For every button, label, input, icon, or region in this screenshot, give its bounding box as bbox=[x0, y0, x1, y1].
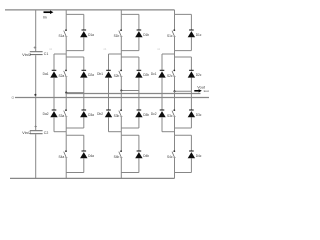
wire leg3 clamp column upper bbox=[161, 54, 163, 70]
svg-text:D4b: D4b bbox=[143, 154, 149, 158]
svg-text:D1b: D1b bbox=[143, 33, 149, 37]
transistor S3c (ideal switch) bbox=[172, 109, 176, 116]
diode D1b bbox=[135, 30, 142, 37]
diode D4a bbox=[80, 151, 87, 158]
svg-text:D2a: D2a bbox=[88, 73, 94, 77]
wire leg2 clamp column upper bbox=[108, 54, 110, 70]
label + polarity C1 bbox=[34, 46, 37, 49]
wire leg3 cell1 diode column bbox=[190, 14, 192, 50]
wire leg3 clamp column middle bbox=[161, 78, 163, 110]
wire leg2 clamp column middle bbox=[108, 78, 110, 110]
wire leg2 link cell1-cell2 bbox=[120, 51, 122, 57]
arrow Iout output current bbox=[194, 89, 202, 92]
wire leg3 rail stub switch side bbox=[174, 91, 176, 97]
svg-text:D1c: D1c bbox=[196, 33, 202, 37]
wire leg1 cell3 diode column bbox=[83, 98, 85, 129]
wire leg3 cell2 top bar bbox=[175, 56, 192, 58]
wire leg1 cell1 diode column bbox=[83, 14, 85, 50]
diode Da2 clamp lower bbox=[50, 110, 57, 117]
diode D2b bbox=[135, 70, 142, 77]
wire leg1 cell1 top bar bbox=[66, 13, 84, 15]
svg-text:S4c: S4c bbox=[167, 155, 173, 159]
node capacitor midpoint junction bbox=[34, 94, 36, 96]
svg-text:Da2: Da2 bbox=[43, 112, 49, 116]
wire leg3 cell3 bottom bar bbox=[175, 127, 192, 129]
wire leg1 top stub bbox=[65, 10, 67, 15]
svg-text:Db2: Db2 bbox=[97, 112, 103, 116]
wire leg1 rail stub diode side bbox=[83, 93, 85, 98]
transistor S1c (ideal switch) bbox=[172, 29, 176, 36]
arrow Iin input current bbox=[44, 10, 54, 14]
wire leg3 cell1 switch column bbox=[174, 14, 176, 50]
transistor S3b (ideal switch) bbox=[119, 109, 123, 116]
svg-text:S3c: S3c bbox=[167, 114, 173, 118]
wire leg1 cell2 diode column bbox=[83, 57, 85, 93]
diode Dc1 clamp upper bbox=[158, 70, 165, 77]
wire leg3 bottom stub bbox=[174, 173, 176, 179]
wire leg2 cell4 bottom bar bbox=[121, 172, 139, 174]
svg-text:D2b: D2b bbox=[143, 73, 149, 77]
wire leg3 cell2 bottom bar bbox=[175, 90, 192, 92]
wire leg3 cell3 top bar bbox=[175, 97, 192, 99]
svg-text:Iin: Iin bbox=[43, 16, 47, 20]
wire leg2 clamp bottom bar bbox=[109, 131, 122, 133]
wire leg1 bottom stub bbox=[65, 173, 67, 179]
wire leg2 clamp column lower bbox=[108, 117, 110, 131]
wire leg2 rail stub switch side bbox=[120, 91, 122, 98]
wire capacitor branch upper bbox=[35, 10, 37, 51]
svg-text:C1: C1 bbox=[44, 52, 49, 56]
diode Da1 clamp upper bbox=[50, 70, 57, 77]
node leg1 output junction bbox=[65, 92, 67, 94]
wire leg1 rail stub switch side bbox=[65, 93, 67, 98]
wire neutral rail bbox=[15, 97, 209, 99]
wire leg2 cell4 switch column bbox=[120, 135, 122, 172]
wire leg2 cell3 switch column bbox=[120, 98, 122, 129]
wire leg1 clamp bottom bar bbox=[54, 131, 66, 133]
wire leg3 cell3 diode column bbox=[190, 98, 192, 129]
diode Dc2 clamp lower bbox=[158, 110, 165, 117]
node neutral terminal bbox=[12, 97, 14, 99]
transistor S2c (ideal switch) bbox=[172, 70, 176, 77]
svg-text:S1a: S1a bbox=[59, 34, 65, 38]
node leg2 output junction bbox=[120, 89, 122, 91]
svg-text:D2c: D2c bbox=[196, 73, 202, 77]
diode D4b bbox=[135, 151, 142, 158]
wire capacitor branch lower bbox=[35, 134, 37, 178]
wire leg1 cell1 switch column bbox=[65, 14, 67, 50]
capacitor C1 bbox=[30, 52, 43, 55]
svg-text:S2c: S2c bbox=[167, 74, 173, 78]
wire output rail bbox=[66, 93, 201, 95]
wire leg2 cell3 bottom bar bbox=[121, 127, 139, 129]
svg-text:S3a: S3a bbox=[59, 114, 65, 118]
wire leg2 bottom stub bbox=[120, 173, 122, 179]
transistor S4b (ideal switch) bbox=[119, 150, 123, 157]
wire leg1 link cell3-cell4 bbox=[65, 128, 67, 135]
wire leg2 cell2 bottom bar bbox=[121, 90, 139, 92]
svg-text:Dc2: Dc2 bbox=[151, 112, 157, 116]
wire leg1 clamp top bar bbox=[54, 53, 66, 55]
diode D2a bbox=[80, 70, 87, 77]
wire leg2 cell4 top bar bbox=[121, 134, 139, 136]
wire leg2 cell1 top bar bbox=[121, 13, 139, 15]
wire leg1 cell2 switch column bbox=[65, 57, 67, 93]
wire capacitor branch middle bbox=[35, 55, 37, 130]
wire leg3 link cell1-cell2 bbox=[174, 51, 176, 57]
wire leg1 clamp column middle bbox=[53, 78, 55, 110]
wire leg3 clamp bottom bar bbox=[162, 131, 175, 133]
wire leg1 cell3 top bar bbox=[66, 97, 84, 99]
svg-text:Da1: Da1 bbox=[43, 72, 49, 76]
svg-text:D3a: D3a bbox=[88, 113, 94, 117]
wire leg1 cell4 switch column bbox=[65, 135, 67, 172]
diode D4c bbox=[188, 151, 195, 158]
wire leg2 cell1 diode column bbox=[138, 14, 140, 50]
wire leg3 clamp top bar bbox=[162, 53, 175, 55]
wire leg3 cell2 diode column bbox=[190, 57, 192, 91]
wire leg3 cell3 switch column bbox=[174, 98, 176, 129]
svg-text:Vin/2: Vin/2 bbox=[22, 130, 32, 135]
transistor S4a (ideal switch) bbox=[64, 150, 68, 157]
wire leg1 cell4 bottom bar bbox=[66, 172, 84, 174]
wire leg1 cell4 top bar bbox=[66, 134, 84, 136]
svg-text:Dc1: Dc1 bbox=[151, 72, 157, 76]
wire leg2 rail stub diode side bbox=[138, 91, 140, 98]
transistor S1b (ideal switch) bbox=[119, 29, 123, 36]
wire leg2 cell1 bottom bar bbox=[121, 50, 139, 52]
wire leg2 cell3 diode column bbox=[138, 98, 140, 129]
wire leg2 cell4 diode column bbox=[138, 135, 140, 172]
svg-text:Db1: Db1 bbox=[97, 72, 103, 76]
diode D2c bbox=[188, 70, 195, 77]
transistor S4c (ideal switch) bbox=[172, 150, 176, 157]
transistor S1a (ideal switch) bbox=[64, 29, 68, 36]
svg-text:D4a: D4a bbox=[88, 154, 94, 158]
wire leg1 cell2 bottom bar bbox=[66, 92, 84, 94]
svg-text:S1c: S1c bbox=[167, 34, 173, 38]
wire leg3 cell1 top bar bbox=[175, 13, 192, 15]
wire leg1 link cell1-cell2 bbox=[65, 51, 67, 57]
label + polarity C2 bbox=[34, 125, 37, 128]
capacitor C2 bbox=[30, 131, 43, 134]
wire leg3 top stub bbox=[174, 10, 176, 15]
wire leg3 cell2 switch column bbox=[174, 57, 176, 91]
diode D3c bbox=[188, 110, 195, 117]
wire leg3 cell4 switch column bbox=[174, 135, 176, 172]
svg-text:S1b: S1b bbox=[114, 34, 120, 38]
wire leg3 link cell3-cell4 bbox=[174, 128, 176, 135]
wire top DC bus bbox=[5, 9, 175, 11]
wire leg1 cell3 switch column bbox=[65, 98, 67, 129]
diode Db2 clamp lower bbox=[105, 110, 112, 117]
svg-text:S4b: S4b bbox=[114, 155, 120, 159]
wire leg3 cell4 top bar bbox=[175, 134, 192, 136]
wire leg1 cell3 bottom bar bbox=[66, 127, 84, 129]
wire leg1 clamp column upper bbox=[53, 54, 55, 70]
svg-text:D3c: D3c bbox=[196, 113, 202, 117]
wire leg3 rail stub diode side bbox=[190, 91, 192, 97]
svg-text:Vin/2: Vin/2 bbox=[22, 52, 32, 57]
wire leg2 clamp top bar bbox=[109, 53, 122, 55]
wire leg2 cell1 switch column bbox=[120, 14, 122, 50]
wire leg2 cell2 switch column bbox=[120, 57, 122, 91]
svg-text:S3b: S3b bbox=[114, 114, 120, 118]
svg-text:S2a: S2a bbox=[59, 74, 65, 78]
wire leg2 cell2 diode column bbox=[138, 57, 140, 91]
diode D1a bbox=[80, 30, 87, 37]
wire leg2 top stub bbox=[120, 10, 122, 15]
wire leg2 link cell3-cell4 bbox=[120, 128, 122, 135]
wire leg3 clamp column lower bbox=[161, 117, 163, 131]
transistor S2a (ideal switch) bbox=[64, 70, 68, 77]
svg-text:Iout: Iout bbox=[204, 89, 209, 93]
diode D3b bbox=[135, 110, 142, 117]
wire bottom DC bus bbox=[10, 177, 175, 179]
svg-text:D1a: D1a bbox=[88, 33, 94, 37]
transistor S3a (ideal switch) bbox=[64, 109, 68, 116]
wire leg1 clamp column lower bbox=[53, 117, 55, 131]
wire leg1 cell2 top bar bbox=[66, 56, 84, 58]
wire leg3 cell4 bottom bar bbox=[175, 172, 192, 174]
diode D1c bbox=[188, 30, 195, 37]
svg-text:S4a: S4a bbox=[59, 155, 65, 159]
diode Db1 clamp upper bbox=[105, 70, 112, 77]
wire leg3 cell4 diode column bbox=[190, 135, 192, 172]
wire leg1 cell1 bottom bar bbox=[66, 50, 84, 52]
svg-text:D3b: D3b bbox=[143, 113, 149, 117]
wire leg2 cell3 top bar bbox=[121, 97, 139, 99]
diode D3a bbox=[80, 110, 87, 117]
node leg3 output junction bbox=[173, 90, 175, 92]
wire leg1 cell4 diode column bbox=[83, 135, 85, 172]
wire leg2 cell2 top bar bbox=[121, 56, 139, 58]
svg-text:D4c: D4c bbox=[196, 154, 202, 158]
wire leg3 cell1 bottom bar bbox=[175, 50, 192, 52]
transistor S2b (ideal switch) bbox=[119, 70, 123, 77]
svg-text:S2b: S2b bbox=[114, 74, 120, 78]
svg-text:C2: C2 bbox=[44, 131, 49, 135]
